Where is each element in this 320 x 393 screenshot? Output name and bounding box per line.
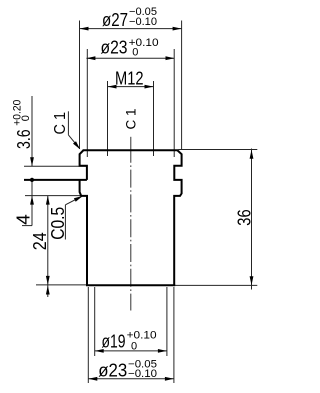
svg-text:ø23: ø23	[98, 361, 127, 381]
svg-text:−0.10: −0.10	[128, 368, 157, 380]
svg-text:C 1: C 1	[122, 108, 138, 129]
svg-text:C 1: C 1	[52, 112, 69, 135]
svg-text:−0.10: −0.10	[129, 16, 157, 28]
svg-text:36: 36	[234, 209, 254, 225]
svg-text:0: 0	[131, 341, 137, 353]
svg-text:ø27: ø27	[102, 10, 128, 30]
svg-text:24: 24	[30, 232, 50, 250]
svg-text:M12: M12	[115, 68, 144, 88]
svg-text:C0.5: C0.5	[48, 207, 68, 240]
svg-text:3.6: 3.6	[14, 129, 34, 149]
svg-text:ø19: ø19	[102, 331, 126, 351]
svg-text:0: 0	[20, 115, 32, 121]
svg-text:ø23: ø23	[101, 38, 128, 58]
svg-text:4: 4	[14, 214, 34, 225]
svg-text:0: 0	[132, 47, 138, 59]
